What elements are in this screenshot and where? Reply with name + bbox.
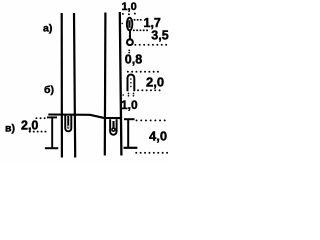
stem bulge	[129, 35, 131, 37]
svg-text:4,0: 4,0	[149, 129, 167, 144]
needle in left tube	[67, 116, 69, 129]
dotted line below 2,0 right	[138, 89, 162, 91]
svg-text:2,0: 2,0	[21, 118, 38, 132]
tube wall left-1	[61, 13, 63, 158]
svg-text:б): б)	[44, 84, 54, 96]
dotted leader 2,0 v top	[36, 117, 46, 119]
loop U left	[65, 116, 71, 132]
dotted leader to 3,5	[134, 29, 151, 31]
dotted line bottom right	[136, 152, 168, 154]
dimension bracket v (2,0)	[51, 117, 53, 149]
bracket 4,0 bottom tee	[124, 147, 138, 149]
stem below oval	[129, 31, 131, 39]
dotted line above 2,0 right	[128, 71, 160, 73]
needle eye white slot	[68, 125, 69, 127]
dropper ring right	[112, 128, 115, 131]
dots below circle C1	[128, 50, 130, 52]
dotted line right of 4,0 top tee	[137, 119, 170, 121]
dotted axis in capsule	[130, 78, 132, 80]
dotted leader under 1,0 top	[122, 13, 124, 15]
needle eye oval	[127, 18, 133, 31]
dotted leader 2,0 v bottom	[30, 131, 46, 133]
bracket v bottom tee	[45, 147, 58, 149]
tube wall left-2	[74, 13, 75, 158]
speck near oval	[122, 23, 123, 24]
svg-text:1,0: 1,0	[122, 1, 137, 13]
svg-text:2,0: 2,0	[146, 74, 164, 89]
capsule arch	[128, 75, 135, 92]
bracket v top tee	[47, 116, 57, 118]
tube wall right-2	[120, 12, 122, 156]
svg-text:в): в)	[5, 123, 15, 135]
small circle C1	[127, 39, 133, 45]
svg-text:1,7: 1,7	[144, 16, 161, 30]
svg-text:1,0: 1,0	[121, 98, 138, 112]
tube wall right-1	[104, 13, 107, 156]
dimension bracket 4,0	[127, 119, 129, 149]
dotted leader to 1,7	[135, 19, 144, 21]
dotted leader from C1	[135, 44, 166, 46]
loop U right	[110, 119, 116, 135]
mounting plate line	[48, 115, 121, 119]
svg-text:0,8: 0,8	[125, 53, 142, 67]
eye slot bar	[128, 20, 130, 27]
dots under capsule arms	[128, 93, 130, 95]
bracket 4,0 top tee	[124, 118, 135, 120]
dropper stem right	[112, 121, 114, 128]
svg-text:3,5: 3,5	[151, 29, 168, 43]
svg-text:а): а)	[43, 23, 52, 35]
